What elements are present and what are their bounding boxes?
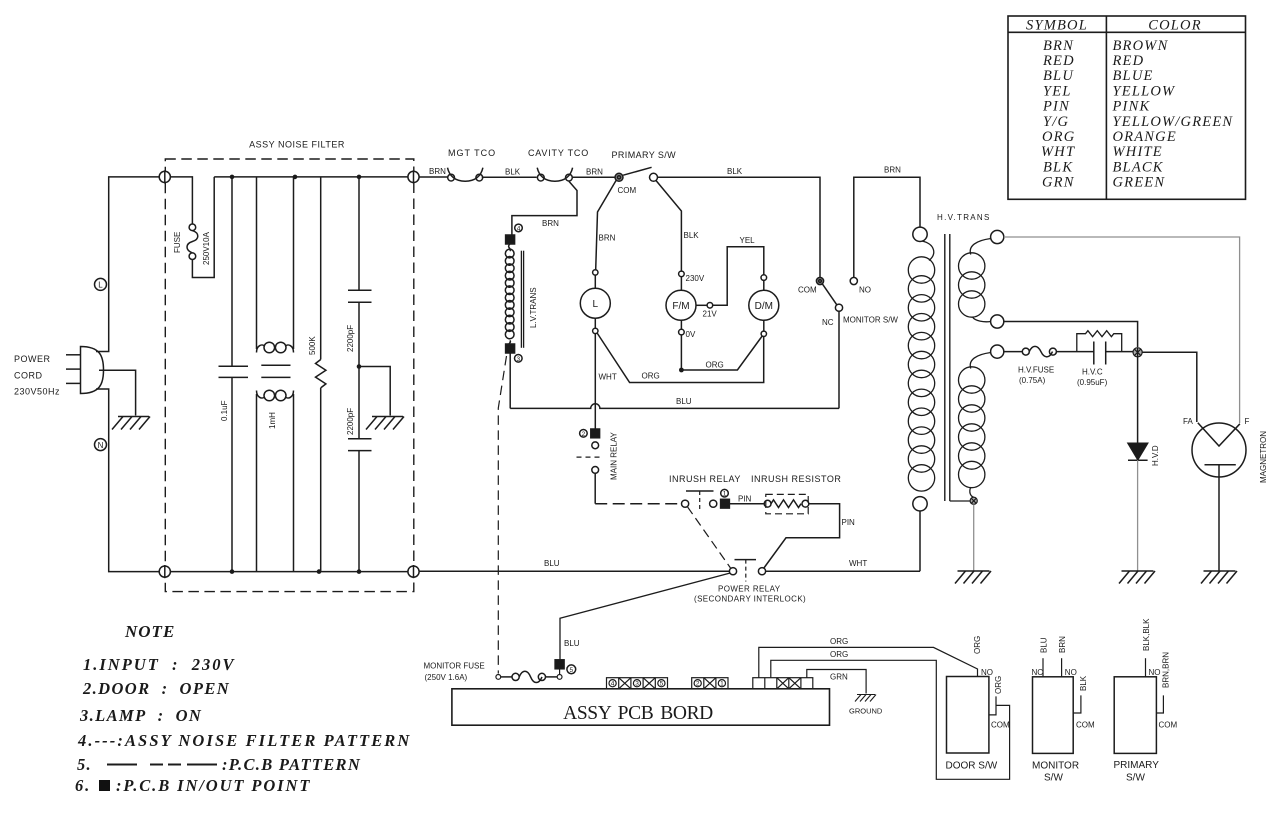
drive motor D/M	[749, 290, 779, 320]
svg-text:4: 4	[611, 681, 615, 688]
svg-text:S/W: S/W	[1126, 773, 1145, 784]
BLK,BLK vertical label	[1142, 618, 1151, 651]
power relay left contact	[729, 568, 736, 575]
wire GRN pcb to ground	[807, 670, 866, 694]
ground magnetron	[1201, 571, 1237, 584]
svg-text:ORG: ORG	[830, 637, 848, 646]
svg-text:PRIMARY S/W: PRIMARY S/W	[612, 150, 677, 160]
wire caps mid to ground	[359, 367, 390, 416]
svg-text:CAVITY TCO: CAVITY TCO	[528, 148, 589, 158]
main relay contact bottom	[592, 467, 599, 474]
svg-text:2200pF: 2200pF	[346, 408, 355, 435]
MGT TCO	[448, 168, 483, 182]
pin 3 circled	[515, 355, 523, 363]
wire LV trans to BLU corner	[509, 353, 511, 408]
primary sw COM contact	[615, 173, 623, 181]
svg-text:F: F	[1245, 417, 1250, 426]
WHT label	[849, 559, 867, 568]
PCB in point 4 square	[506, 235, 515, 244]
wire BRN NO up and to HV trans	[854, 177, 920, 277]
POWER RELAY label	[718, 585, 781, 594]
svg-text:250V10A: 250V10A	[202, 231, 211, 265]
junction dots top rail	[230, 175, 362, 180]
H.V.FUSE	[1022, 346, 1056, 357]
H.V.D label	[1151, 445, 1160, 466]
dashed pattern LV trans to monitor fuse	[498, 356, 506, 674]
svg-text:NO: NO	[1065, 668, 1077, 677]
HV trans core	[945, 234, 950, 501]
wire fuse to HVC	[1056, 351, 1093, 353]
wire diode to ground grey	[1137, 460, 1139, 570]
wire node to diode	[1137, 357, 1139, 443]
resistor 500K	[316, 177, 326, 572]
monitor sw NO contact	[850, 277, 857, 284]
0V label	[686, 330, 696, 339]
svg-text:YEL: YEL	[740, 236, 756, 245]
table text	[1026, 18, 1233, 191]
svg-text:ORANGE: ORANGE	[1113, 129, 1177, 145]
LV trans core	[521, 251, 523, 348]
DOOR S/W label	[946, 761, 998, 772]
svg-text:L: L	[593, 299, 599, 310]
BRN label	[542, 219, 559, 228]
BLU label	[544, 559, 560, 568]
svg-text:BLU: BLU	[1040, 637, 1049, 653]
NOTE heading	[124, 622, 175, 641]
monitor sw NC contact	[835, 304, 842, 311]
svg-text:2200pF: 2200pF	[346, 325, 355, 352]
CAVITY TCO	[537, 168, 572, 182]
wire secondary mid to HVC node	[1004, 322, 1138, 348]
note line 6	[75, 776, 311, 795]
svg-text:NC: NC	[1032, 668, 1044, 677]
monitor sw COM pin	[1073, 695, 1081, 713]
svg-text:RED: RED	[1042, 53, 1075, 69]
power relay coil dashes	[745, 560, 747, 582]
BLK label	[727, 167, 743, 176]
H.V.C parallel resistor	[1077, 331, 1122, 352]
svg-text:ORG: ORG	[973, 636, 982, 654]
H.V.C label	[1077, 368, 1108, 388]
svg-text:(250V 1.6A): (250V 1.6A)	[425, 673, 468, 682]
note line 4	[77, 731, 411, 750]
BRN vertical label	[1058, 636, 1067, 653]
NO label door	[981, 668, 993, 677]
LV trans coil	[505, 244, 514, 348]
svg-text:BLK: BLK	[1079, 675, 1088, 691]
inrush relay coil bar	[686, 490, 714, 492]
terminal L left	[159, 170, 170, 183]
svg-text:SYMBOL: SYMBOL	[1026, 18, 1088, 34]
wire	[680, 277, 682, 291]
svg-text:3: 3	[635, 681, 639, 688]
pcb pattern wire to inrush relay	[595, 503, 681, 505]
svg-text:COLOR: COLOR	[1148, 18, 1202, 34]
assy noise filter dashed box	[165, 159, 413, 592]
monitor sw COM contact	[816, 277, 823, 284]
terminal right bottom	[408, 565, 419, 578]
svg-text:5: 5	[660, 681, 664, 688]
svg-text:ASSY NOISE FILTER: ASSY NOISE FILTER	[249, 140, 345, 150]
0.1uF label	[220, 400, 229, 421]
WHT label	[599, 373, 617, 382]
wire ORG pcb to door sw NO	[759, 647, 978, 677]
MONITOR FUSE label	[424, 662, 485, 683]
DM top terminal	[761, 275, 767, 281]
svg-text:5: 5	[569, 667, 573, 674]
ORG vertical label door NO	[973, 636, 982, 654]
svg-text:POWER RELAY: POWER RELAY	[718, 585, 781, 594]
svg-text:1: 1	[723, 491, 727, 498]
wire WHT lamp to main relay	[594, 334, 596, 429]
monitor sw arm	[822, 284, 837, 305]
H.V.TRANS label	[937, 213, 991, 222]
inrush relay right contact	[710, 500, 717, 507]
BLK label	[505, 168, 521, 177]
choke bottom winding	[257, 390, 294, 401]
primary sw COM pin	[1156, 695, 1163, 713]
500K label	[308, 336, 317, 355]
svg-text:NC: NC	[822, 318, 834, 327]
power cord labels	[14, 354, 60, 397]
svg-text:POWER: POWER	[14, 354, 51, 364]
junction dot	[679, 368, 684, 373]
svg-text:N: N	[98, 441, 104, 450]
svg-text:BRN: BRN	[884, 166, 901, 175]
note line 5	[77, 755, 361, 774]
svg-text:BLU: BLU	[564, 639, 580, 648]
svg-text:BRN: BRN	[599, 234, 616, 243]
svg-text:NOTE: NOTE	[124, 622, 175, 641]
svg-text:BRN: BRN	[1058, 636, 1067, 653]
NO label	[859, 286, 871, 295]
pin 2 circled	[580, 430, 588, 438]
monitor sw NC pin	[1042, 658, 1044, 677]
svg-text:BLK,BLK: BLK,BLK	[1142, 618, 1151, 651]
GRN label	[830, 673, 848, 682]
HV filament terminal	[991, 345, 1004, 358]
svg-text:WHT: WHT	[599, 373, 617, 382]
lamp top terminal	[593, 270, 598, 275]
magnetron chevron	[1198, 423, 1240, 446]
inrush relay left contact	[682, 500, 689, 507]
svg-text:BRN: BRN	[542, 219, 559, 228]
svg-text:5.: 5.	[77, 755, 92, 774]
choke top winding	[257, 342, 294, 353]
H.V.FUSE label	[1018, 366, 1054, 386]
wire ORG FM to DM	[681, 336, 762, 370]
lamp L	[580, 288, 610, 318]
svg-text:MGT TCO: MGT TCO	[448, 148, 496, 158]
PIN label right	[842, 518, 856, 527]
power cord plug	[66, 347, 104, 394]
H.V.C capacitor plates	[1094, 342, 1106, 365]
HV node X circle	[1133, 348, 1142, 357]
wire magnetron to ground	[1218, 465, 1220, 571]
assy noise filter label	[249, 140, 345, 150]
wire	[763, 320, 765, 331]
ground node X circle	[970, 497, 977, 504]
svg-text:S/W: S/W	[1044, 773, 1063, 784]
lamp bottom terminal	[593, 328, 598, 333]
svg-text:BRN: BRN	[586, 168, 603, 177]
pin 5 circled	[567, 665, 576, 674]
svg-text:DOOR S/W: DOOR S/W	[946, 761, 998, 772]
svg-text:1: 1	[720, 681, 724, 688]
svg-text:GREEN: GREEN	[1113, 175, 1166, 191]
MGT TCO label	[448, 148, 496, 158]
PCB in point 5 square	[555, 660, 564, 669]
junction dot caps mid	[357, 364, 362, 369]
230V label	[686, 274, 705, 283]
wire N rail to power relay	[419, 570, 729, 572]
DM bottom terminal	[761, 331, 766, 336]
core to ground node wire	[950, 500, 970, 502]
choke core	[261, 365, 290, 377]
svg-text:MAIN RELAY: MAIN RELAY	[610, 431, 619, 480]
NC label	[1032, 668, 1044, 677]
wire lamp bottom	[594, 318, 596, 328]
svg-text:PINK: PINK	[1112, 99, 1151, 115]
wire primary bottom to WHT line	[919, 511, 921, 571]
wire square to fuse	[559, 669, 561, 675]
svg-text:WHITE: WHITE	[1113, 144, 1163, 160]
svg-text:BLU: BLU	[544, 559, 560, 568]
svg-text::P.C.B PATTERN: :P.C.B PATTERN	[222, 755, 361, 774]
svg-text:3.LAMP : ON: 3.LAMP : ON	[79, 706, 202, 725]
BLU label	[676, 397, 692, 406]
BRN label	[884, 166, 901, 175]
svg-text:COM: COM	[798, 286, 817, 295]
connector block 3	[753, 678, 813, 689]
GROUND label	[849, 707, 883, 716]
2200pF top label	[346, 325, 355, 352]
svg-text:H.V.D: H.V.D	[1151, 445, 1160, 466]
PCB in point 3 square	[506, 344, 515, 353]
svg-text:230V: 230V	[686, 274, 705, 283]
COM label	[1159, 721, 1178, 730]
wire plug N to filter	[96, 389, 159, 572]
wire 0V down	[680, 335, 682, 370]
HV secondary winding	[959, 239, 991, 322]
svg-text:COM: COM	[991, 721, 1010, 730]
PCB in point 2 square	[591, 429, 600, 438]
BRN label	[586, 168, 603, 177]
main relay actuator dashes	[577, 456, 601, 458]
COM label	[618, 186, 637, 195]
FM 230V terminal	[679, 271, 685, 277]
svg-text:BLK: BLK	[1043, 159, 1073, 175]
note line 2	[82, 679, 230, 698]
svg-text:21V: 21V	[703, 310, 718, 319]
wire main relay down	[594, 473, 596, 503]
connector block 1 digits	[611, 681, 664, 688]
wire ORG pcb to door sw COM	[771, 660, 1010, 779]
BRN label	[429, 167, 446, 176]
wire HVC to node	[1106, 351, 1133, 353]
wire	[763, 280, 765, 290]
svg-text:0.1uF: 0.1uF	[220, 400, 229, 421]
bottom rail inside filter	[170, 571, 408, 573]
svg-text:ORG: ORG	[994, 676, 1003, 694]
svg-text:GRN: GRN	[830, 673, 848, 682]
svg-text:COM: COM	[1159, 721, 1178, 730]
pin 4 circled	[515, 224, 523, 232]
svg-text:0V: 0V	[686, 330, 696, 339]
svg-text:PIN: PIN	[738, 495, 752, 504]
symbol/color table frame	[1008, 16, 1246, 199]
svg-text:INRUSH RELAY: INRUSH RELAY	[669, 474, 741, 484]
svg-text:L: L	[98, 281, 103, 290]
wire plug earth	[99, 370, 136, 415]
wire BLU line	[510, 404, 839, 409]
wire to lamp	[594, 275, 596, 288]
wire ORG lamp to DM	[597, 333, 764, 382]
svg-text:4: 4	[517, 225, 521, 232]
fuse labels	[173, 231, 211, 265]
top rail inside filter	[214, 176, 408, 178]
INRUSH RESISTOR label	[751, 474, 841, 484]
node L	[95, 278, 107, 290]
capacitor 0.1uF	[219, 177, 249, 572]
BRN,BRN vertical label	[1161, 652, 1170, 688]
ASSY PCB BORD label	[563, 703, 713, 724]
HV filament winding	[959, 353, 991, 498]
svg-text:H.V.C: H.V.C	[1082, 368, 1103, 377]
F label	[1245, 417, 1250, 426]
capacitor 2200pF top	[348, 177, 372, 367]
magnetron filament bar	[1205, 464, 1236, 466]
magnetron body	[1192, 423, 1246, 477]
svg-text:2.DOOR : OPEN: 2.DOOR : OPEN	[82, 679, 230, 698]
power relay coil bar	[735, 559, 757, 561]
primary sw NO contact	[650, 173, 658, 181]
wire YEL 21V to DM	[713, 247, 764, 306]
monitor fuse right end	[557, 675, 562, 680]
connector block 2 digits	[696, 681, 724, 688]
wire power relay to PCB point 5	[560, 573, 730, 660]
svg-text:FA: FA	[1183, 417, 1193, 426]
junction dots bottom rail	[230, 569, 362, 574]
svg-text:GROUND: GROUND	[849, 707, 883, 716]
svg-text:1mH: 1mH	[268, 412, 277, 429]
svg-text:H.V.TRANS: H.V.TRANS	[937, 213, 991, 222]
svg-text:FUSE: FUSE	[173, 232, 182, 253]
svg-text:ORG: ORG	[1042, 129, 1075, 145]
ORG label	[642, 372, 660, 381]
wire square to inrush resistor	[729, 503, 764, 505]
HV trans primary bottom terminal	[913, 497, 927, 511]
note line 5 dashes	[107, 764, 217, 766]
fan motor F/M	[666, 290, 696, 320]
L.V.TRANS label	[529, 287, 538, 328]
svg-text::P.C.B IN/OUT POINT: :P.C.B IN/OUT POINT	[116, 776, 311, 795]
svg-text:BLK: BLK	[505, 168, 521, 177]
connector block 1	[607, 678, 668, 689]
svg-text:GRN: GRN	[1042, 175, 1075, 191]
svg-text:RED: RED	[1112, 53, 1145, 69]
wire to fuse	[170, 177, 192, 224]
HV secondary mid terminal	[991, 315, 1004, 328]
HV trans primary coil	[908, 241, 934, 491]
ORG vertical label door COM	[994, 676, 1003, 694]
door switch box	[947, 677, 989, 754]
ORG label	[830, 637, 848, 646]
monitor fuse	[501, 671, 557, 682]
svg-text:1.INPUT : 230V: 1.INPUT : 230V	[83, 655, 236, 674]
inrush resistor dashed box	[766, 494, 808, 513]
ORG label	[706, 361, 724, 370]
COM label	[798, 286, 817, 295]
svg-text:MONITOR S/W: MONITOR S/W	[843, 316, 898, 325]
BLK vertical label	[1079, 675, 1088, 691]
svg-text:6.: 6.	[75, 776, 91, 795]
svg-text:YEL: YEL	[1043, 83, 1072, 99]
power relay right contact	[758, 568, 765, 575]
svg-text:BLK: BLK	[684, 231, 700, 240]
svg-text:WHT: WHT	[1041, 144, 1075, 160]
inrush relay arm dashed	[687, 507, 730, 568]
svg-text:F/M: F/M	[672, 301, 689, 312]
BLK label	[684, 231, 700, 240]
21V label	[703, 310, 718, 319]
PRIMARY S/W label	[1114, 760, 1160, 784]
MONITOR S/W label	[1032, 761, 1079, 784]
svg-text:BLU: BLU	[676, 397, 692, 406]
wire NC to BLU line	[838, 311, 840, 408]
monitor sw NO pin	[1061, 658, 1063, 677]
wire WHT power relay to HV trans	[766, 570, 920, 572]
primary sw NO pin	[1145, 658, 1147, 677]
PCB in point 1 square	[721, 499, 730, 508]
MAGNETRON label	[1259, 431, 1268, 483]
svg-text:BRN: BRN	[1043, 38, 1074, 54]
svg-text:Y/G: Y/G	[1043, 114, 1069, 130]
note line 3	[79, 706, 202, 725]
svg-text:(SECONDARY INTERLOCK): (SECONDARY INTERLOCK)	[694, 595, 806, 604]
FA label	[1183, 417, 1193, 426]
CAVITY TCO label	[528, 148, 589, 158]
svg-text:2: 2	[696, 681, 700, 688]
PIN label	[738, 495, 752, 504]
svg-text:(0.75A): (0.75A)	[1019, 376, 1046, 385]
ground HV trans	[955, 571, 991, 584]
svg-text:YELLOW: YELLOW	[1113, 83, 1177, 99]
svg-text:H.V.FUSE: H.V.FUSE	[1018, 366, 1054, 375]
primary switch box	[1114, 677, 1156, 754]
wire PIN inrush resistor to power relay	[764, 504, 840, 568]
wire BRN cavity tco to LV trans	[512, 181, 577, 235]
capacitor 2200pF bottom	[348, 367, 372, 572]
wire	[680, 320, 682, 329]
svg-text:BLK: BLK	[727, 167, 743, 176]
wire node to magnetron FA	[1142, 352, 1197, 422]
svg-text:4.---:ASSY NOISE FILTER PATTER: 4.---:ASSY NOISE FILTER PATTERN	[77, 731, 411, 750]
svg-text:NO: NO	[981, 668, 993, 677]
svg-text:2: 2	[582, 431, 586, 438]
inrush resistor	[764, 500, 809, 508]
fuse F1	[187, 177, 214, 278]
wire COM to lamp	[596, 180, 617, 269]
wire filament to HV fuse	[1004, 351, 1023, 353]
wire CAVITY to primary sw	[573, 176, 615, 178]
MAIN RELAY label	[610, 431, 619, 480]
monitor fuse left end	[496, 675, 501, 680]
HV secondary top terminal	[991, 230, 1004, 243]
INRUSH RELAY label	[669, 474, 741, 484]
1mH label	[268, 412, 277, 429]
svg-text:BROWN: BROWN	[1113, 38, 1169, 54]
